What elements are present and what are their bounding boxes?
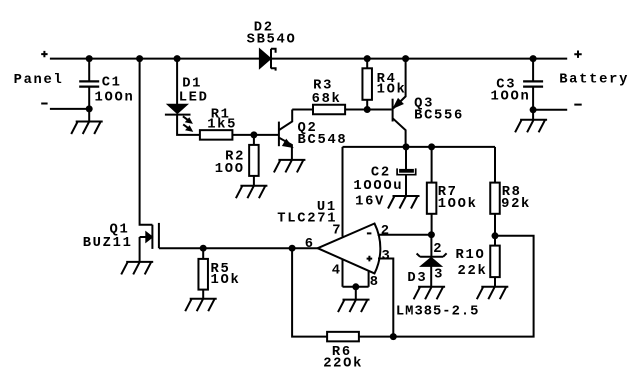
wire R8 bottom to R10 / feedback loop right	[359, 236, 534, 337]
wire R1 to Q2 base	[232, 134, 278, 136]
resistor R7	[431, 147, 433, 183]
junction dot pin2/R7/D3	[428, 231, 435, 238]
svg-text:1OOk: 1OOk	[438, 196, 478, 212]
junction dot pins 4/8	[352, 283, 359, 290]
op-amp U1	[318, 224, 381, 274]
capacitor C2	[405, 147, 407, 169]
wire U1 pin 7	[342, 147, 344, 237]
ground (C1)	[71, 122, 103, 135]
junction dot R8/R10	[492, 232, 499, 239]
wire panel minus	[50, 108, 89, 110]
junction dot Q1 drain	[136, 55, 143, 62]
label + (battery)	[574, 51, 581, 58]
wire top rail right (D2 cathode to battery +)	[271, 58, 567, 60]
label + (panel)	[41, 51, 47, 57]
svg-text:Panel: Panel	[14, 72, 64, 88]
svg-text:1OOn: 1OOn	[491, 90, 531, 105]
svg-text:BC556: BC556	[414, 109, 464, 124]
resistor R3	[313, 105, 345, 115]
junction dot C2 top	[403, 143, 410, 150]
svg-text:7: 7	[332, 224, 342, 239]
resistor R1	[200, 130, 233, 140]
svg-text:22Ok: 22Ok	[323, 356, 363, 372]
svg-text:68k: 68k	[312, 91, 342, 107]
junction dot R4 top	[364, 55, 371, 62]
capacitor C1	[88, 59, 90, 82]
transistor Q1 (MOSFET)	[140, 59, 153, 225]
svg-text:3: 3	[382, 249, 392, 264]
junction dot R6 tap	[289, 245, 296, 252]
ground (Q2)	[274, 160, 306, 173]
svg-text:BUZ11: BUZ11	[83, 236, 133, 251]
resistor R5	[202, 248, 204, 259]
wire pins 4-8 bottom	[343, 287, 369, 300]
wire U1 pin 6 / Q1 gate	[159, 247, 318, 249]
wire R3 to Q3 base	[345, 109, 392, 111]
wire U1 pin 8	[368, 272, 370, 287]
junction dot pin3/R6 node	[390, 333, 397, 340]
wire node N1 horizontal (Q3 collector / C2 / R7 / pin7 / R8)	[343, 146, 496, 148]
wire U1 pin 2 to R7/D3 node	[378, 234, 432, 236]
svg-text:2: 2	[381, 224, 391, 239]
diode D3 (LM385-2.5)	[430, 235, 432, 257]
svg-text:D1: D1	[182, 76, 202, 91]
svg-text:6: 6	[305, 237, 315, 252]
ground (Q1)	[121, 262, 153, 275]
transistor Q3	[392, 99, 394, 122]
svg-text:3: 3	[434, 268, 444, 283]
svg-text:22k: 22k	[458, 263, 488, 279]
wire top rail left (panel + to D2 anode)	[50, 58, 260, 60]
svg-text:16V: 16V	[355, 194, 385, 209]
capacitor C3	[532, 59, 534, 82]
resistor R8	[494, 147, 496, 183]
svg-text:1Ok: 1Ok	[377, 82, 407, 98]
junction dot C1 top	[86, 55, 93, 62]
svg-text:Battery: Battery	[559, 73, 629, 88]
ground (D3)	[414, 287, 446, 300]
wire D1 anode	[176, 59, 178, 105]
svg-text:C1: C1	[102, 76, 122, 91]
junction dot R7 top	[428, 143, 435, 150]
svg-text:1Ok: 1Ok	[211, 272, 241, 288]
junction dot D1 top	[174, 55, 181, 62]
wire R6 left to pin6 wire	[292, 248, 327, 336]
junction dot R1/R2/Q2 node	[250, 131, 257, 138]
wire D1 cathode to R1	[177, 116, 200, 135]
resistor R4	[366, 59, 368, 69]
svg-text:R1O: R1O	[456, 248, 486, 263]
junction dot C1 bottom	[86, 105, 93, 112]
svg-text:1OO: 1OO	[215, 162, 245, 177]
ground (R2)	[236, 186, 268, 199]
diode D2	[259, 49, 271, 69]
junction dot R5 top	[200, 245, 207, 252]
svg-text:4: 4	[332, 263, 342, 278]
svg-text:1OOn: 1OOn	[95, 91, 135, 106]
LED D1	[167, 104, 188, 113]
wire battery minus	[533, 109, 567, 111]
svg-text:2: 2	[433, 242, 443, 257]
junction dot Q3 emitter top	[402, 55, 409, 62]
label - (panel)	[41, 103, 47, 105]
ground (R5)	[185, 299, 217, 312]
svg-text:8: 8	[370, 275, 380, 290]
junction dot C3 top	[530, 55, 537, 62]
wire U1 pin 4	[342, 259, 344, 287]
svg-text:BC548: BC548	[298, 133, 348, 148]
svg-text:92k: 92k	[501, 196, 531, 212]
wire Q2 collector to R3	[292, 109, 313, 111]
label - (battery)	[574, 104, 581, 106]
svg-text:1k5: 1k5	[207, 116, 237, 132]
junction dot C3 bottom	[530, 106, 537, 113]
svg-text:TLC271: TLC271	[277, 212, 337, 227]
ground (R10)	[477, 287, 509, 300]
wire U1 pin 3	[378, 259, 393, 337]
junction dot R3/R4/Q3 node	[364, 106, 371, 113]
svg-text:LM385-2.5: LM385-2.5	[396, 304, 480, 319]
ground (U1)	[338, 300, 370, 313]
svg-text:LED: LED	[179, 91, 209, 106]
svg-text:1OOOu: 1OOOu	[353, 179, 403, 194]
ground (C3)	[515, 120, 547, 133]
resistor R2	[253, 135, 255, 145]
svg-text:D3: D3	[407, 271, 427, 286]
ground (C2)	[388, 196, 420, 209]
transistor Q2	[278, 122, 280, 147]
resistor R10	[494, 236, 496, 246]
resistor R6	[327, 332, 359, 342]
svg-text:SB54O: SB54O	[247, 33, 297, 48]
